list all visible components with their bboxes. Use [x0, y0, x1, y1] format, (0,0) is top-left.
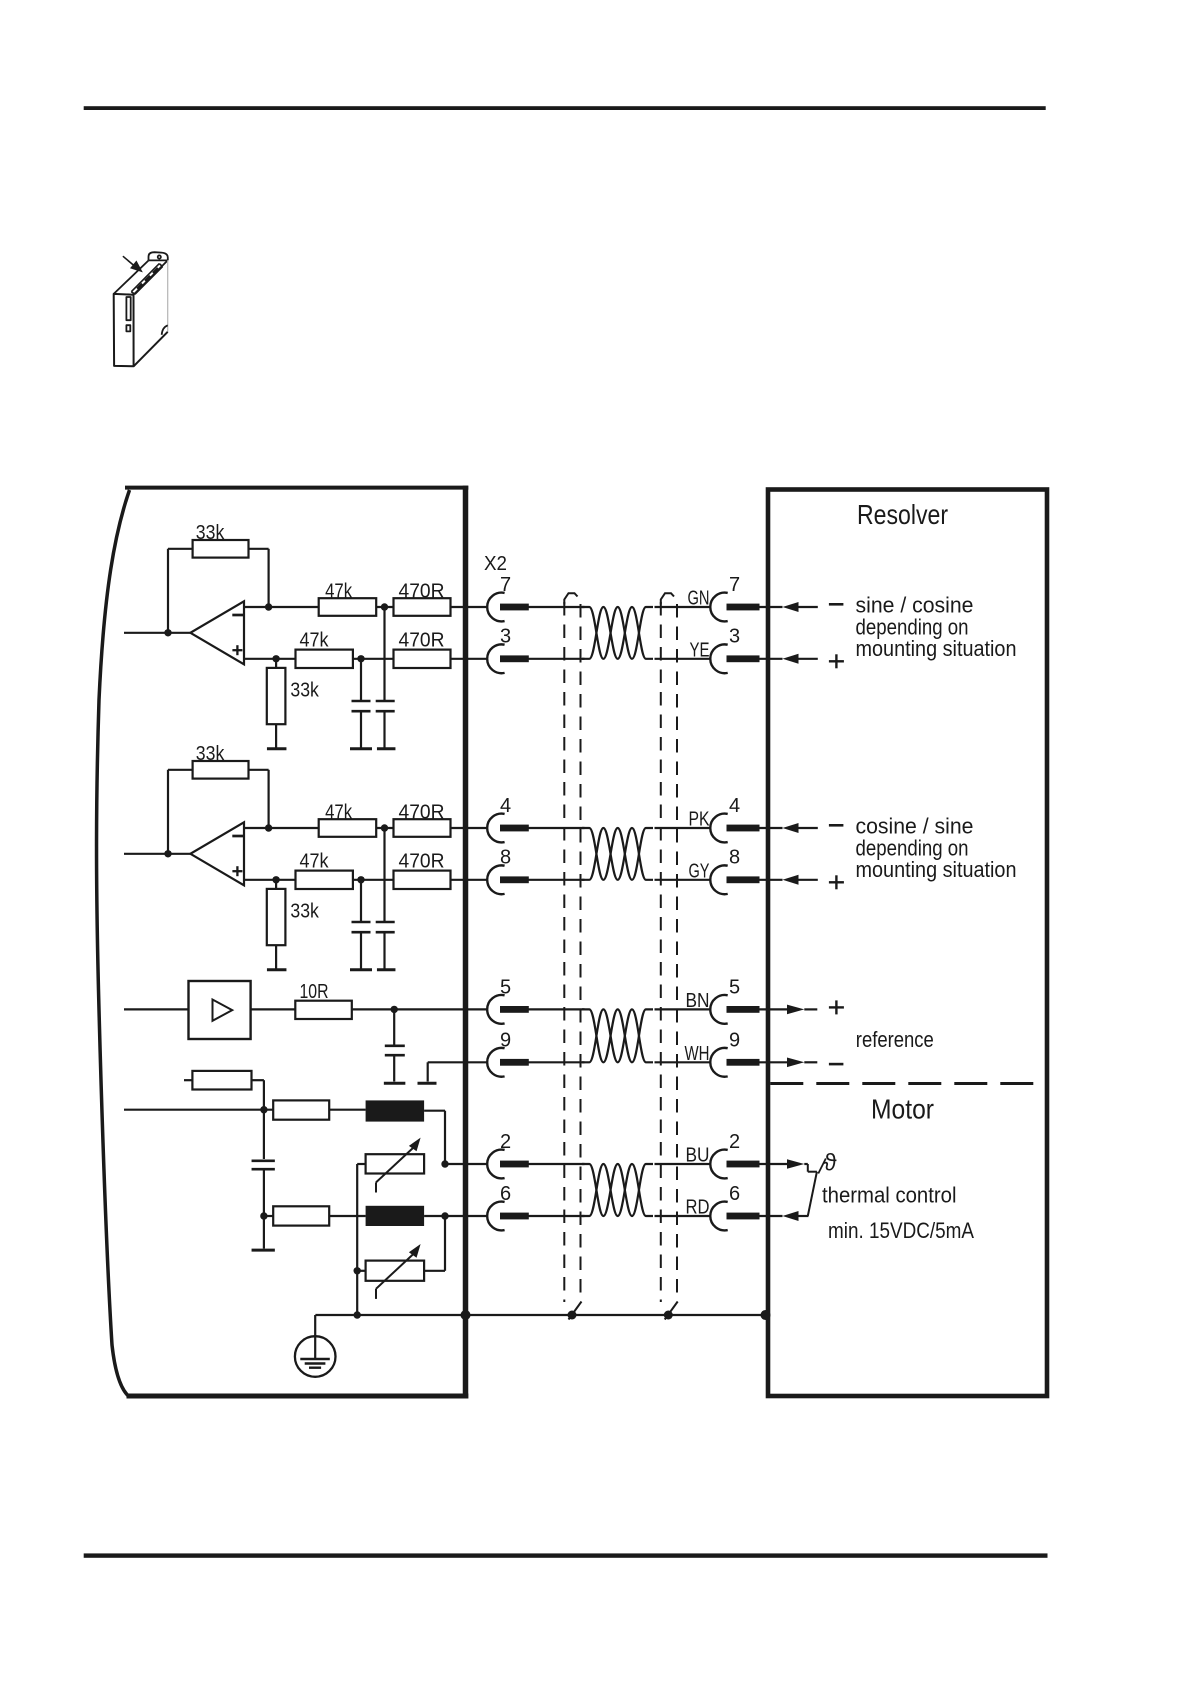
- shield hook top 1: [564, 593, 577, 604]
- svg-text:BU: BU: [686, 1145, 710, 1167]
- op-amp U2 input wire: [124, 853, 190, 855]
- wire GN pin into resolver: [758, 606, 783, 608]
- ground bar under C22: [377, 968, 396, 971]
- wire op-amp plus input: [244, 658, 296, 660]
- wire cable to BN pin: [655, 1008, 711, 1010]
- wire buffer to 10R: [251, 1008, 296, 1010]
- plus polarity row 1: [829, 660, 844, 662]
- resistor R42: [273, 1100, 329, 1119]
- wire pin7 to cable: [529, 606, 585, 608]
- ground bar under C21: [350, 968, 372, 971]
- connector X2 pin 5: [487, 995, 504, 1024]
- capacitor C21: [360, 880, 362, 921]
- svg-text:47k: 47k: [325, 802, 353, 824]
- node reference cap junction: [391, 1006, 398, 1013]
- arrow into resolver YE: [783, 654, 799, 664]
- svg-text:thermal control: thermal control: [822, 1183, 957, 1208]
- connector pin 7 (GN): [710, 593, 727, 622]
- node thermal A junction: [260, 1106, 267, 1113]
- shield hook bottom 2: [665, 1302, 678, 1320]
- wire 47k to 470R: [376, 827, 393, 829]
- svg-text:5: 5: [729, 976, 740, 998]
- buffer amplifier U3: [189, 981, 251, 1039]
- ground bar under C12: [377, 747, 396, 750]
- wire varistor RV2 right: [424, 1270, 445, 1272]
- svg-text:470R: 470R: [399, 581, 445, 603]
- wire BN pin into resolver: [758, 1008, 787, 1010]
- cable shield dashed line 1 right: [580, 604, 582, 1299]
- connector pin 2 (BU): [710, 1150, 727, 1179]
- svg-text:X2: X2: [484, 553, 507, 575]
- connector pin 5 (BN): [710, 995, 727, 1024]
- arrow to thermal switch: [787, 1159, 804, 1169]
- wire 470R to pin: [451, 606, 488, 608]
- node pin2 junction: [441, 1160, 448, 1167]
- node minus filter junction: [381, 603, 388, 610]
- node pin6 junction: [441, 1212, 448, 1219]
- wire choke L1 to pin 2 drop: [424, 1110, 445, 1112]
- cable shield dashed line 2 right: [676, 604, 678, 1299]
- wire GY pin into resolver: [758, 879, 783, 881]
- twisted pair cable row 4: [582, 1164, 653, 1216]
- connector X2 pin 7: [487, 593, 504, 622]
- svg-text:7: 7: [500, 574, 511, 596]
- resistor R43: [273, 1206, 329, 1225]
- svg-text:6: 6: [500, 1183, 511, 1205]
- minus polarity row 3: [829, 1063, 844, 1066]
- ground bar at pin 9 return: [418, 1082, 437, 1085]
- arrow out of resolver WH: [787, 1058, 804, 1068]
- twisted pair cable row 3: [582, 1009, 653, 1062]
- feedback resistor 33k R21: [167, 770, 169, 854]
- node ground shield 1: [568, 1311, 577, 1320]
- connector X2 pin 2: [487, 1150, 504, 1179]
- svg-text:33k: 33k: [196, 743, 225, 765]
- buffer amplifier U3 input wire: [124, 1008, 189, 1010]
- wire pin4 to cable: [529, 827, 585, 829]
- page bottom rule: [84, 1553, 1048, 1557]
- resistor 47k R12: [319, 598, 377, 616]
- servo amplifier device icon: [114, 252, 168, 366]
- feedback resistor 33k R11: [167, 549, 169, 633]
- wire cable to WH pin: [655, 1061, 711, 1063]
- connector X2 pin 4: [487, 814, 504, 843]
- resistor 47k R24: [296, 871, 353, 889]
- ground bar thermal: [252, 1249, 275, 1252]
- wire 470R to pin: [451, 827, 488, 829]
- svg-text:9: 9: [729, 1029, 740, 1051]
- twisted pair cable row 1: [582, 607, 653, 659]
- wire BU pin into motor: [758, 1163, 787, 1165]
- resolver/motor dashed separator: [770, 1082, 1045, 1085]
- wire RD pin out of motor: [758, 1215, 783, 1217]
- wire varistor RV1 left: [357, 1163, 365, 1165]
- svg-text:470R: 470R: [399, 851, 445, 873]
- thermal wire B: [264, 1215, 273, 1217]
- wire pin8 to cable: [529, 879, 585, 881]
- node U1 input junction: [164, 629, 171, 636]
- connector pin 3 (YE): [710, 644, 727, 673]
- thermal wire A: [124, 1109, 273, 1111]
- wire PK pin into resolver: [758, 827, 783, 829]
- node plus filter junction: [357, 876, 364, 883]
- wire choke L2 to pin 6: [424, 1215, 487, 1217]
- svg-text:8: 8: [500, 847, 511, 869]
- capacitor C12: [383, 607, 385, 700]
- wire op-amp minus input: [244, 827, 319, 829]
- svg-text:33k: 33k: [196, 522, 225, 544]
- connector X2 pin 9: [487, 1048, 504, 1077]
- connector pin 8 (GY): [710, 865, 727, 894]
- plus polarity row 3: [829, 1006, 844, 1008]
- ground bar under C11: [350, 747, 372, 750]
- svg-text:6: 6: [729, 1183, 740, 1205]
- svg-text:4: 4: [729, 795, 740, 817]
- connector pin 4 (PK): [710, 814, 727, 843]
- svg-text:2: 2: [729, 1131, 740, 1153]
- ground bus wire: [315, 1314, 765, 1316]
- connector X2 pin 3: [487, 644, 504, 673]
- node feedback/minus junction: [265, 603, 272, 610]
- wire op-amp minus input: [244, 606, 319, 608]
- resistor 33k R16 to ground: [275, 659, 277, 668]
- node ground shield 2: [664, 1311, 673, 1320]
- svg-text:47k: 47k: [300, 630, 330, 652]
- wire cable to BU pin: [655, 1163, 711, 1165]
- capacitor C11: [360, 659, 362, 700]
- wire pin 9 to internal ground: [428, 1061, 487, 1063]
- svg-text:3: 3: [729, 626, 740, 648]
- svg-text:reference: reference: [856, 1027, 934, 1052]
- node ground at resolver box: [761, 1310, 771, 1320]
- svg-text:GY: GY: [689, 860, 710, 882]
- svg-text:BN: BN: [686, 990, 710, 1012]
- svg-text:RD: RD: [686, 1197, 710, 1219]
- node plus/33k junction: [272, 655, 279, 662]
- resistor 47k R22: [319, 819, 377, 837]
- svg-text:4: 4: [500, 795, 511, 817]
- cable shield dashed line 1 left: [563, 602, 565, 1302]
- protective earth symbol: [314, 1315, 316, 1359]
- connector X2 pin 8: [487, 865, 504, 894]
- minus polarity row 1: [829, 603, 844, 606]
- resistor R41 with stub: [184, 1079, 192, 1081]
- svg-text:8: 8: [729, 847, 740, 869]
- resistor 470R R25: [394, 871, 451, 889]
- svg-text:5: 5: [500, 976, 511, 998]
- wire 10R to pin 5: [352, 1008, 487, 1010]
- svg-text:10R: 10R: [300, 981, 329, 1003]
- wire 470R to pin lower: [451, 879, 488, 881]
- svg-text:min. 15VDC/5mA: min. 15VDC/5mA: [828, 1218, 974, 1243]
- wire WH pin into resolver: [758, 1061, 787, 1063]
- capacitor C31: [393, 1009, 395, 1044]
- wire YE pin into resolver: [758, 658, 783, 660]
- wire RV1 to pin 2: [445, 1163, 487, 1165]
- wire pin2 to cable: [529, 1163, 585, 1165]
- svg-text:ϑ: ϑ: [824, 1150, 837, 1177]
- wire cable to YE pin: [655, 658, 711, 660]
- wire 47k to 470R: [376, 606, 393, 608]
- resistor 10R R31: [295, 1001, 352, 1019]
- wire cable to GY pin: [655, 879, 711, 881]
- wire pin9 to cable: [529, 1061, 585, 1063]
- wire 47k to 470R lower: [353, 658, 394, 660]
- svg-text:47k: 47k: [325, 581, 353, 603]
- svg-text:WH: WH: [685, 1043, 710, 1065]
- choke L2 (filled): [366, 1206, 425, 1226]
- choke L1 (filled): [366, 1100, 425, 1121]
- wire pin3 to cable: [529, 658, 585, 660]
- node RV2 left junction: [354, 1267, 361, 1274]
- wire cable to PK pin: [655, 827, 711, 829]
- wire cable to RD pin: [655, 1215, 711, 1217]
- arrow out of resolver BN: [787, 1005, 804, 1015]
- connector X2 pin 6: [487, 1202, 504, 1231]
- svg-text:3: 3: [500, 626, 511, 648]
- wire 47k to 470R lower: [353, 879, 394, 881]
- svg-text:YE: YE: [690, 639, 710, 661]
- svg-text:mounting situation: mounting situation: [856, 636, 1017, 661]
- thermal switch contact: [807, 1164, 809, 1172]
- svg-text:9: 9: [500, 1029, 511, 1051]
- ground bar under 33k R16: [267, 747, 287, 750]
- op-amp U1: [190, 601, 244, 664]
- minus polarity row 2: [829, 824, 844, 827]
- wire R43 to choke L2: [329, 1215, 365, 1217]
- node U2 input junction: [164, 850, 171, 857]
- varistor RV2: [366, 1261, 425, 1281]
- svg-text:Resolver: Resolver: [857, 499, 948, 530]
- arrow into resolver PK: [783, 823, 799, 833]
- node ground at RV line: [354, 1311, 361, 1318]
- svg-text:GN: GN: [688, 588, 710, 610]
- wire pin5 to cable: [529, 1008, 585, 1010]
- wire 470R to pin lower: [451, 658, 488, 660]
- shield hook bottom 1: [569, 1302, 582, 1320]
- wire feedback to inverting input: [249, 769, 269, 771]
- connector pin 6 (RD): [710, 1202, 727, 1231]
- resistor 33k R26 to ground: [275, 880, 277, 889]
- wire pin6 to cable: [529, 1215, 585, 1217]
- svg-text:7: 7: [729, 574, 740, 596]
- resistor 470R R15: [394, 650, 451, 668]
- wire cable to GN pin: [655, 606, 711, 608]
- resistor 47k R14: [296, 650, 353, 668]
- op-amp U2: [190, 822, 244, 885]
- arrow from thermal switch to RD: [783, 1211, 799, 1221]
- node plus/33k junction: [272, 876, 279, 883]
- capacitor C41 between thermal lines: [263, 1110, 265, 1159]
- cable shield dashed line 2 left: [660, 602, 662, 1302]
- svg-text:470R: 470R: [399, 802, 445, 824]
- wire R41 to thermal line: [252, 1079, 264, 1081]
- capacitor C22: [383, 828, 385, 921]
- svg-text:33k: 33k: [290, 680, 319, 702]
- svg-text:33k: 33k: [290, 901, 319, 923]
- twisted pair cable row 2: [582, 828, 653, 880]
- connector pin 9 (WH): [710, 1048, 727, 1077]
- resistor 470R R13: [394, 598, 451, 616]
- resolver/motor box: [768, 490, 1047, 1397]
- amplifier enclosure box: [125, 486, 468, 490]
- svg-text:mounting situation: mounting situation: [856, 857, 1017, 882]
- svg-text:47k: 47k: [300, 851, 330, 873]
- ground bar under 33k R26: [267, 968, 287, 971]
- svg-text:PK: PK: [689, 809, 711, 831]
- wire R42 to choke: [329, 1109, 365, 1111]
- node ground at amplifier edge: [461, 1310, 471, 1320]
- svg-text:2: 2: [500, 1131, 511, 1153]
- wire varistor RV2 left: [357, 1270, 365, 1272]
- shield hook top 2: [661, 593, 674, 604]
- arrow into resolver GN: [783, 602, 799, 612]
- wire op-amp plus input: [244, 879, 296, 881]
- node minus filter junction: [381, 824, 388, 831]
- varistor RV1: [366, 1154, 425, 1173]
- arrow into resolver GY: [783, 875, 799, 885]
- node plus filter junction: [357, 655, 364, 662]
- op-amp U1 input wire: [124, 632, 190, 634]
- page top rule: [84, 106, 1046, 110]
- wire feedback to inverting input: [249, 548, 269, 550]
- resistor 470R R23: [394, 819, 451, 837]
- ground bar under C31: [384, 1082, 406, 1085]
- node thermal B junction: [260, 1212, 267, 1219]
- svg-text:Motor: Motor: [871, 1094, 934, 1125]
- svg-text:470R: 470R: [399, 630, 445, 652]
- plus polarity row 2: [829, 881, 844, 883]
- node feedback/minus junction: [265, 824, 272, 831]
